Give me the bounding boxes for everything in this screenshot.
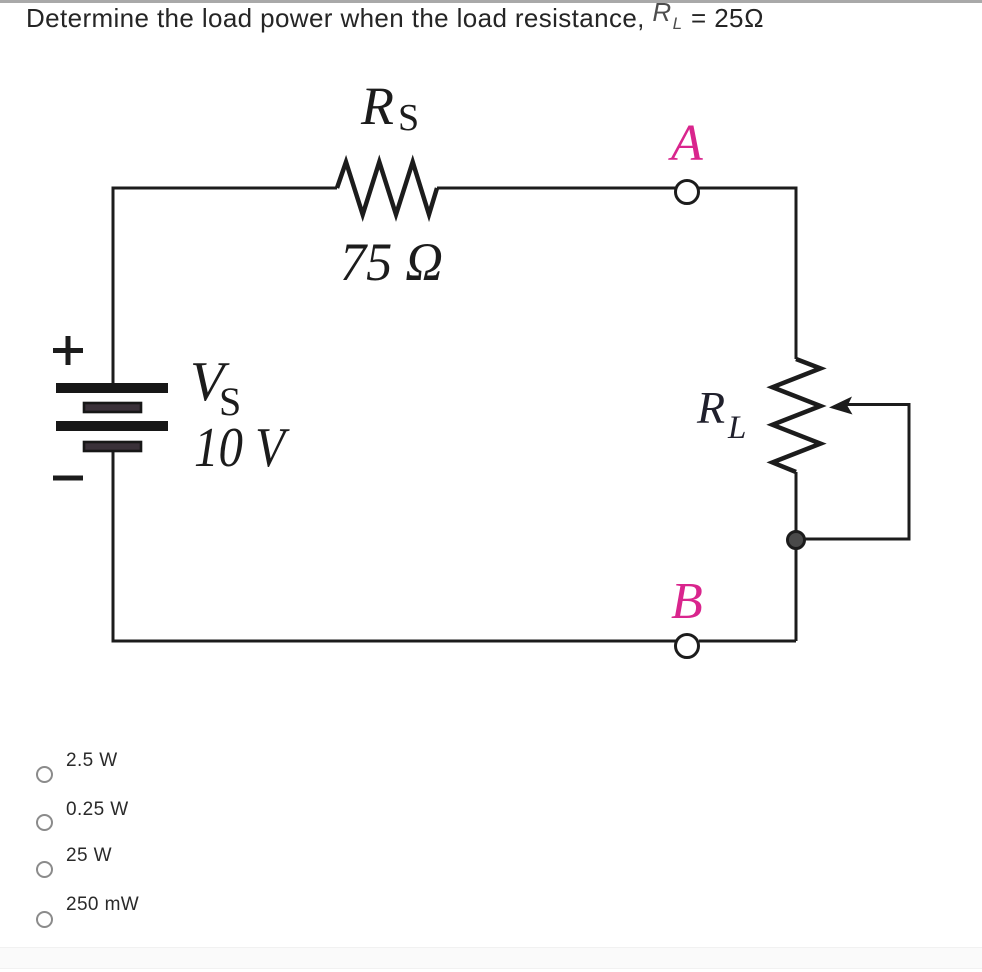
wiper loop wire (805, 405, 909, 540)
svg-text:75 Ω: 75 Ω (340, 232, 443, 292)
option 2: label 0.25 W (66, 799, 129, 821)
label RL (696, 382, 746, 446)
svg-text:B: B (671, 573, 703, 630)
title text (26, 3, 762, 34)
label Rs (360, 76, 419, 139)
option 3: radio (36, 861, 53, 878)
battery minus sign (53, 476, 83, 481)
wire: node A to top-right corner, down to RL (698, 188, 796, 359)
svg-text:A: A (668, 115, 703, 172)
resistor RL (773, 359, 821, 472)
bottom light band (0, 947, 982, 969)
option 3: label 25 W (66, 845, 112, 867)
svg-text:R: R (360, 76, 394, 136)
battery plus sign (53, 336, 83, 365)
option 1: label 2.5 W (66, 750, 118, 772)
wire: bottom-right corner to node B (699, 640, 796, 643)
option 2: radio (36, 814, 53, 831)
svg-text:R: R (696, 382, 725, 433)
option 1: radio (36, 766, 53, 783)
wire: RL bottom through junction to bottom-right corner (795, 472, 798, 641)
svg-text:S: S (398, 97, 419, 139)
label Vs (190, 351, 241, 424)
svg-text:10 V: 10 V (194, 417, 290, 479)
node A terminal circle (676, 181, 699, 204)
wire: node B to bottom-left corner and up to battery minus (113, 446, 676, 641)
svg-text:L: L (727, 410, 746, 446)
wiper arrowhead (829, 397, 853, 415)
wire: Rs to node A (437, 187, 676, 190)
top gray rule (0, 0, 982, 3)
wire: top-left from battery to Rs (113, 188, 337, 388)
junction dot (788, 532, 805, 549)
option 4: label 250 mW (66, 894, 139, 916)
battery Vs plates (56, 383, 168, 451)
node B terminal circle (676, 635, 699, 658)
option 4: radio (36, 911, 53, 928)
resistor Rs (337, 162, 437, 215)
